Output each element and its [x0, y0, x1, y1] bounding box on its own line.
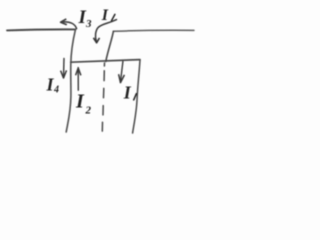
wire from top-right corner down to shelf	[106, 31, 114, 61]
arrow I4 (down, left of left wire)	[63, 58, 66, 77]
arrow I3 (curved, pointing left at top-left corner)	[64, 22, 77, 29]
svg-text:I: I	[123, 82, 132, 102]
svg-text:I: I	[75, 91, 85, 113]
arrow I2 (up, right of left wire)	[77, 68, 79, 91]
wire top-right horizontal	[113, 29, 194, 32]
wire top-left horizontal	[7, 29, 76, 30]
wire right vertical	[133, 60, 140, 133]
svg-text:3: 3	[85, 18, 92, 30]
svg-text:I: I	[101, 7, 109, 24]
wire shelf horizontal (junction bar)	[71, 60, 140, 63]
svg-text:2: 2	[85, 104, 92, 116]
dashed line below junction	[103, 63, 105, 66]
arrow I1 (hook curving down-left from label)	[95, 20, 116, 41]
wire left vertical (node branch down)	[66, 30, 75, 132]
arrow I1 (down, on right branch)	[120, 62, 123, 83]
svg-text:4: 4	[53, 85, 59, 96]
